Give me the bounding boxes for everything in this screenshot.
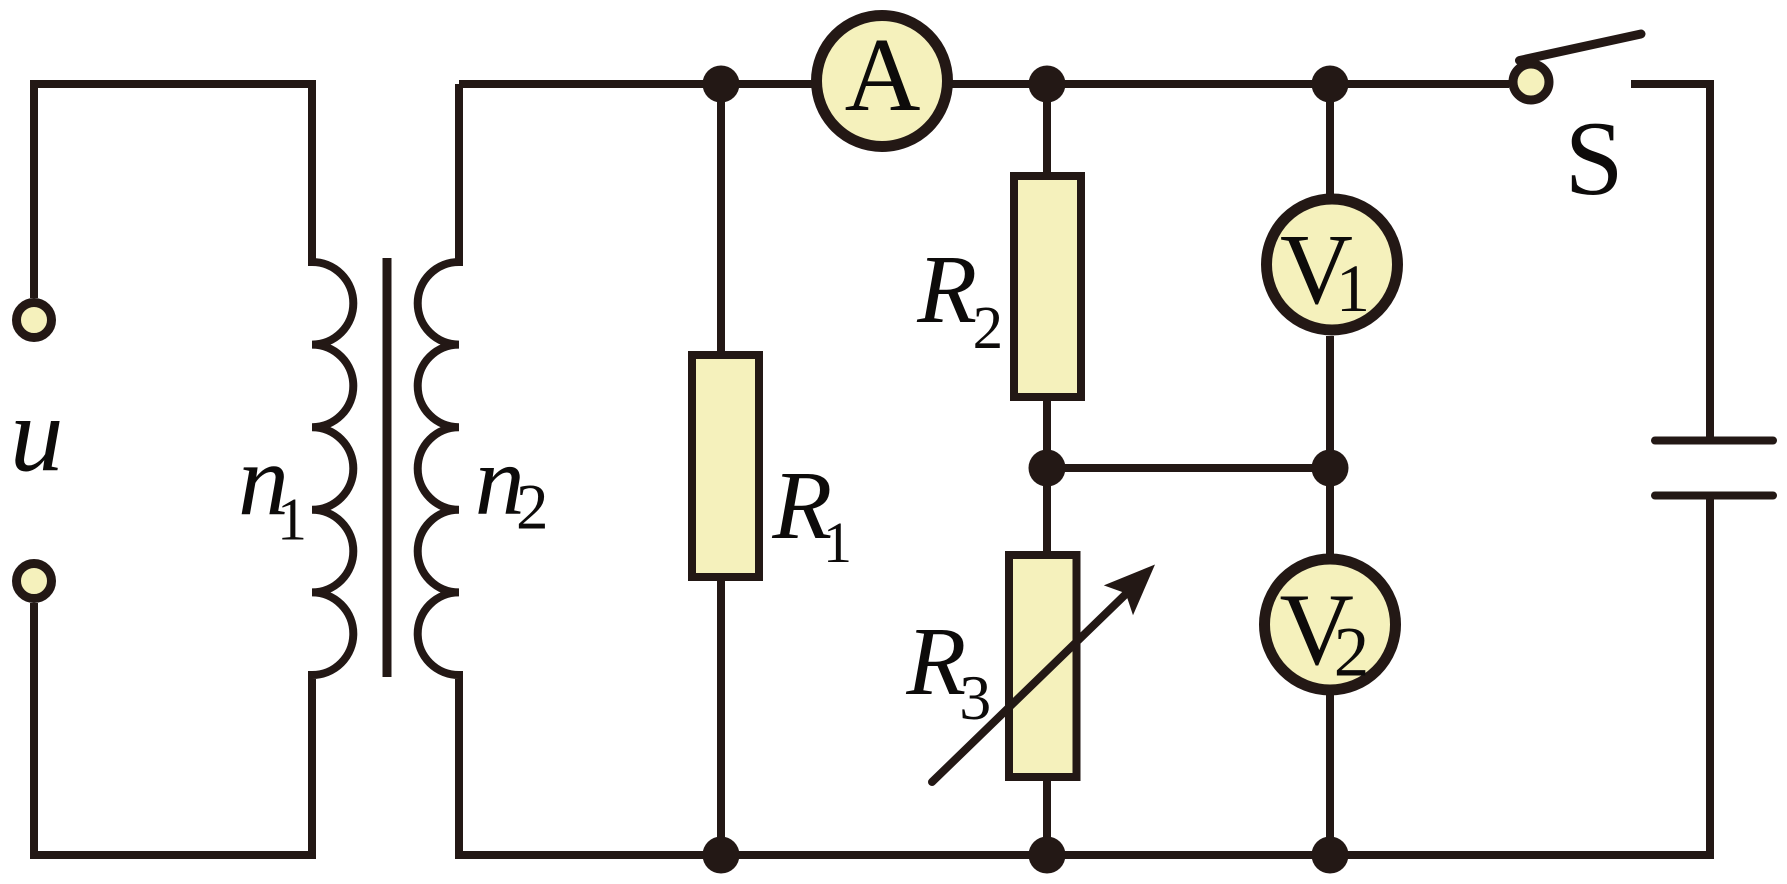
svg-text:S: S [1565, 100, 1624, 217]
svg-text:R: R [905, 608, 966, 716]
svg-text:1: 1 [1336, 250, 1370, 326]
svg-text:A: A [845, 16, 921, 133]
svg-text:1: 1 [823, 510, 852, 575]
svg-text:3: 3 [959, 662, 991, 733]
svg-text:u: u [10, 376, 64, 494]
svg-text:R: R [916, 236, 977, 344]
svg-text:2: 2 [1334, 614, 1370, 692]
svg-text:2: 2 [516, 471, 549, 543]
svg-text:2: 2 [973, 295, 1004, 362]
svg-text:1: 1 [277, 487, 307, 553]
